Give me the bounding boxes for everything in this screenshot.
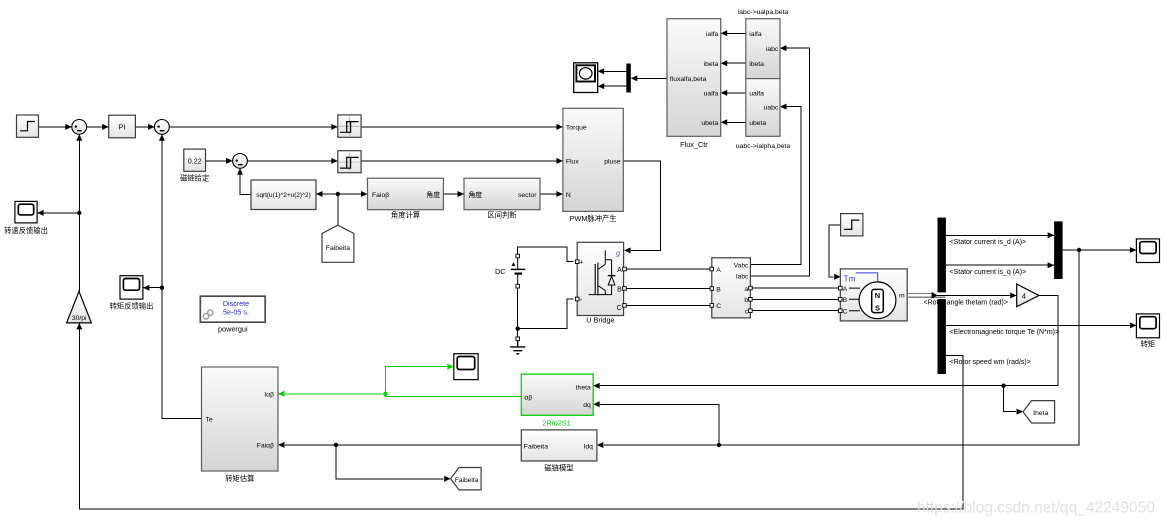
wire bridge B to VI B: [625, 288, 712, 290]
svg-text:2Rto2S1: 2Rto2S1: [542, 418, 570, 427]
wire gain30 to sum1: [76, 134, 82, 291]
svg-text:Torque: Torque: [566, 124, 587, 131]
svg-text:uabc: uabc: [764, 105, 779, 112]
node label stator current is_d: [949, 237, 1029, 246]
wire ubeta wire: [721, 119, 746, 125]
subsystem flux model 磁链模型: [521, 430, 597, 472]
svg-text:5e-05 s.: 5e-05 s.: [223, 308, 249, 317]
svg-text:4: 4: [1022, 291, 1026, 300]
Goto tag theta: [1023, 401, 1055, 423]
svg-text:Faibeita: Faibeita: [524, 443, 548, 450]
sum block speed error sum1: [72, 120, 87, 135]
svg-text:ubeta: ubeta: [749, 120, 766, 127]
subsystem 2Rto2S1 (green): [521, 374, 593, 427]
wire ualfa wire: [721, 90, 746, 96]
gain 4: [1017, 284, 1039, 307]
svg-text:B: B: [716, 286, 721, 293]
svg-text:B: B: [843, 297, 848, 304]
svg-text:<Stator current is_d (A)>: <Stator current is_d (A)>: [950, 239, 1027, 246]
wire fluxalfa to demux: [631, 75, 667, 81]
ground: [510, 337, 525, 354]
node label rotor speed wm: [949, 357, 1034, 366]
powergui: [200, 296, 265, 334]
wire bus out3 thetam to gain: [946, 293, 1017, 299]
sum block torque error sum2: [155, 120, 170, 135]
svg-text:转矩估算: 转矩估算: [225, 474, 254, 483]
svg-text:sector: sector: [518, 192, 537, 199]
svg-text:A: A: [843, 286, 848, 293]
wire const to sum3: [206, 158, 233, 164]
svg-text:theta: theta: [576, 384, 591, 391]
svg-text:ialfa: ialfa: [749, 31, 762, 38]
wire bridge C to VI C: [625, 304, 712, 306]
wire Iabc to iabc input: [750, 45, 809, 276]
svg-text:fluxalfa,beta: fluxalfa,beta: [670, 76, 707, 83]
scope speed feedback scope 转速反馈输出: [15, 201, 37, 223]
wire green alpha beta wire: [278, 391, 521, 397]
wire dq trunk to Idq: [597, 250, 1079, 448]
svg-text:C: C: [843, 308, 848, 315]
wire mux to scope1: [1063, 247, 1137, 253]
svg-text:转矩反馈输出: 转矩反馈输出: [110, 301, 154, 310]
bus selector: [938, 218, 946, 374]
demux: [626, 64, 631, 93]
step source speed reference: [17, 115, 39, 137]
wire step2 to Tm: [829, 225, 841, 280]
wire relay1 to PWM Torque: [361, 124, 563, 130]
wire bridge A to VI A: [625, 268, 712, 270]
svg-text:0.22: 0.22: [188, 159, 202, 166]
svg-text:Flux: Flux: [566, 158, 579, 165]
wire theta tag branch: [1004, 386, 1023, 415]
wire sqrt to sum3: [237, 168, 251, 194]
wire demux out2: [598, 83, 627, 89]
asynchronous machine: [839, 269, 908, 321]
svg-text:<Rotor speed wm (rad/s)>: <Rotor speed wm (rad/s)>: [950, 359, 1031, 366]
svg-text:Flux_Ctr: Flux_Ctr: [680, 140, 708, 149]
wire ialfa wire: [721, 30, 746, 36]
wire PI to sum2: [135, 124, 154, 130]
svg-text:A: A: [716, 267, 721, 274]
svg-text:ialfa: ialfa: [706, 31, 719, 38]
wire bus out5 wm feedback: [76, 323, 963, 509]
wire bus out4 torque to scope: [946, 322, 1136, 328]
svg-text:ibeta: ibeta: [704, 61, 719, 68]
svg-text:-: -: [580, 295, 583, 304]
svg-text:磁链模型: 磁链模型: [544, 463, 573, 472]
relay torque hysteresis relay1: [338, 115, 361, 137]
subsystem uabc to alpha beta transform: [736, 79, 790, 150]
svg-text:theta: theta: [1033, 410, 1048, 417]
svg-text:A: A: [617, 267, 622, 274]
svg-text:m: m: [899, 292, 905, 299]
svg-text:Te: Te: [206, 416, 213, 423]
svg-text:iabc: iabc: [766, 46, 779, 53]
DC voltage source: [495, 254, 525, 288]
subsystem PWM pulse generator PWM脉冲产生: [563, 108, 623, 223]
svg-text:角度: 角度: [469, 190, 483, 199]
svg-text:区间判断: 区间判断: [487, 210, 516, 219]
svg-text:sqrt(u(1)^2+u(2)^2): sqrt(u(1)^2+u(2)^2): [256, 192, 310, 199]
XY graph scope: [574, 63, 598, 93]
wire sum2 to relay1: [169, 124, 337, 130]
svg-text:Faibeita: Faibeita: [326, 245, 350, 252]
svg-text:ibeta: ibeta: [749, 61, 764, 68]
node label stator current is_q: [949, 267, 1029, 276]
svg-text:<Electromagnetic torque Te (N*: <Electromagnetic torque Te (N*m)>: [950, 329, 1060, 336]
wire pluse to bridge gate: [623, 161, 660, 254]
three-phase VI measurement: [710, 258, 752, 318]
step source load torque step: [841, 214, 863, 236]
svg-text:powergui: powergui: [218, 325, 248, 334]
wire DC minus to bridge and ground: [516, 286, 574, 331]
wire angle calc to sector: [443, 191, 464, 197]
scope stator currents scope: [1136, 239, 1159, 263]
svg-text:αβ: αβ: [524, 394, 532, 401]
subsystem torque estimator 转矩估算: [202, 367, 279, 483]
svg-text:C: C: [716, 303, 721, 310]
wire ibeta wire: [721, 60, 746, 66]
sqrt magnitude function: [251, 180, 316, 210]
node label rotor angle thetam: [923, 298, 1009, 307]
wire step to sum1: [39, 124, 72, 130]
wire VI a to machine A: [750, 287, 840, 289]
svg-text:转速反馈输出: 转速反馈输出: [4, 226, 48, 235]
wire bus out1 is_d: [946, 232, 1054, 238]
svg-text:PWM脉冲产生: PWM脉冲产生: [570, 214, 617, 223]
svg-text:Faioβ: Faioβ: [372, 192, 389, 199]
svg-text:dq: dq: [583, 402, 591, 409]
svg-text:+: +: [579, 260, 583, 267]
svg-text:<Stator current is_q (A)>: <Stator current is_q (A)>: [950, 269, 1027, 276]
subsystem angle calculation 角度计算: [368, 178, 444, 219]
wire sum3 to relay2: [247, 158, 337, 164]
wire thetam through bus gap: [937, 295, 1010, 297]
wire bus out2 is_q: [946, 262, 1054, 268]
wire VI c to machine C: [750, 310, 840, 312]
constant 0.22 flux reference: [180, 149, 209, 182]
svg-text:PI: PI: [118, 123, 125, 132]
subsystem sector detection 区间判断: [464, 178, 540, 219]
scope flux trajectory (green): [454, 354, 478, 380]
wire dq branch: [593, 401, 719, 445]
svg-text:Vabc: Vabc: [734, 263, 749, 270]
wire Te branch to torque fb scope: [143, 285, 162, 291]
svg-text:Faiαβ: Faiαβ: [257, 443, 274, 450]
wire Te feedback to sum2: [159, 134, 202, 418]
wire demux out1: [598, 68, 627, 74]
scope torque 转矩: [1136, 314, 1159, 349]
wire Vabc to uabc input: [750, 104, 800, 265]
subsystem iabc to alpha beta transform: [738, 9, 789, 79]
Goto tag Faibeita lower: [451, 468, 481, 490]
svg-text:Idq: Idq: [583, 443, 593, 450]
wire green branch to scope: [386, 364, 454, 394]
svg-text:DC: DC: [495, 267, 506, 276]
U Bridge universal bridge: [575, 242, 626, 324]
svg-text:角度: 角度: [426, 190, 440, 199]
svg-text:ubeta: ubeta: [701, 120, 718, 127]
svg-text:uabc->ialpha,beta: uabc->ialpha,beta: [736, 143, 790, 150]
wire relay2 to PWM Flux: [361, 158, 563, 164]
svg-text:ualfa: ualfa: [749, 91, 764, 98]
wire gain4 to theta trunk: [593, 296, 1058, 389]
svg-text:<Rotor angle thetam (rad)>: <Rotor angle thetam (rad)>: [924, 300, 1008, 307]
svg-text:N: N: [875, 291, 880, 300]
svg-text:S: S: [875, 303, 880, 312]
svg-text:Faibeita: Faibeita: [455, 477, 479, 484]
subsystem Flux_Ctr: [667, 19, 721, 150]
From tag Faibeita upper: [322, 225, 354, 262]
svg-text:iabc->ualpa,beta: iabc->ualpa,beta: [738, 9, 789, 16]
wire ground stem wire: [517, 329, 519, 337]
relay flux hysteresis relay2: [338, 151, 361, 173]
svg-text:U Bridge: U Bridge: [586, 316, 614, 325]
wire machine m bus: [907, 292, 945, 299]
svg-text:pluse: pluse: [604, 158, 620, 165]
mux: [1054, 221, 1063, 279]
wire node Faibeita to sqrt and angle calc: [316, 191, 368, 197]
svg-text:ualfa: ualfa: [704, 91, 719, 98]
wire DC plus to bridge: [518, 247, 574, 262]
svg-text:N: N: [566, 192, 571, 199]
scope torque feedback scope 转矩反馈输出: [120, 276, 143, 299]
wire Faibeita to torque est: [278, 442, 521, 448]
svg-text:角度计算: 角度计算: [391, 210, 420, 219]
svg-text:g: g: [616, 250, 620, 257]
svg-text:B: B: [617, 287, 622, 294]
wire sector to PWM N: [540, 191, 563, 197]
svg-text:a: a: [744, 286, 748, 293]
svg-text:b: b: [744, 297, 748, 304]
svg-text:Iabc: Iabc: [736, 273, 749, 280]
svg-text:30/pi: 30/pi: [72, 315, 87, 322]
PI controller: [109, 115, 136, 138]
svg-text:转矩: 转矩: [1141, 340, 1156, 349]
svg-text:https://blog.csdn.net/qq_42249: https://blog.csdn.net/qq_42249050: [917, 500, 1155, 517]
node label electromagnetic torque: [949, 327, 1060, 336]
wire VI b to machine B: [750, 298, 840, 300]
svg-text:Tm: Tm: [844, 274, 856, 284]
wire sum1 to PI: [87, 124, 109, 130]
svg-text:C: C: [617, 305, 622, 312]
sum block flux error sum3: [233, 154, 248, 169]
wire From tag riser: [337, 194, 339, 225]
svg-text:Iαβ: Iαβ: [264, 391, 274, 398]
gain 30/pi: [67, 291, 92, 323]
svg-text:磁链给定: 磁链给定: [180, 173, 209, 182]
wire branch to Faibeita goto: [336, 445, 451, 482]
wire speed branch to scope: [37, 210, 79, 216]
